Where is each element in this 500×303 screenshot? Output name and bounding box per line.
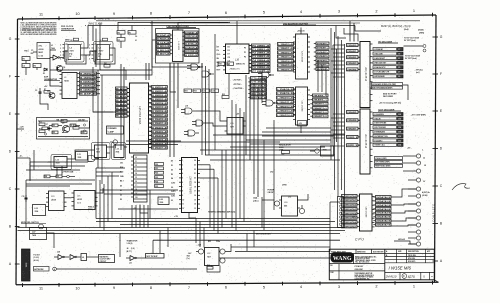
svg-text:CLAMP: CLAMP: [108, 130, 115, 133]
svg-text:B 2MRD6+B: B 2MRD6+B: [152, 111, 168, 113]
svg-text:MOT PICKUP: MOT PICKUP: [147, 256, 159, 258]
resistor R12: [39, 128, 45, 132]
svg-text:R32: R32: [155, 173, 158, 175]
wire RAM bottom stubs: [140, 205, 148, 214]
flip-flop L13: [48, 155, 72, 170]
gate L28B inverter: [70, 255, 81, 260]
svg-text:ZC/TO1→: ZC/TO1→: [233, 84, 243, 86]
svg-text:B 125KC+B: B 125KC+B: [80, 90, 96, 92]
handwritten TO CRT note: [405, 55, 421, 61]
svg-text:L20 LS244: L20 LS244: [301, 51, 303, 62]
inverter gate L1: [50, 55, 64, 60]
FORWARD CLAMP label box: [107, 126, 124, 134]
svg-text:200: 200: [398, 114, 401, 116]
svg-text:8: 8: [150, 285, 152, 290]
OUT decoder output rows: [373, 113, 403, 147]
svg-text:LS139: LS139: [51, 200, 56, 202]
svg-text:B SEL0+B: B SEL0+B: [157, 46, 170, 48]
svg-text:2: 2: [375, 284, 377, 289]
title block top strip: [329, 249, 434, 253]
svg-text:D2: D2: [120, 195, 122, 197]
svg-text:13: 13: [135, 169, 137, 171]
svg-text:C3: C3: [35, 90, 37, 92]
label 2ND ADDRESS BUFFER: [283, 22, 316, 25]
pin labels left of CTC: [217, 46, 221, 71]
gate L28 inverter: [54, 252, 69, 260]
wire clock to 2MHz bus: [84, 26, 103, 49]
small gate L14: [88, 156, 99, 162]
magnetic clutch label box: [99, 255, 115, 263]
pin labels right of buffer L21: [310, 94, 329, 118]
svg-text:Q2: Q2: [47, 91, 49, 93]
wire photo loop: [72, 150, 92, 159]
svg-text:RST•: RST•: [217, 70, 221, 72]
gate L18B and: [192, 120, 207, 126]
svg-text:23: 23: [398, 63, 400, 65]
wire left edge stubs: [18, 129, 31, 180]
wire main horizontal bus 2: [18, 230, 346, 232]
svg-text:SW1: SW1: [25, 263, 27, 269]
svg-text:→(VT. CONT (REF): →(VT. CONT (REF): [410, 115, 426, 117]
wire top right routing L2: [344, 28, 358, 42]
svg-text:B 2MRD3+B: B 2MRD3+B: [152, 99, 168, 101]
svg-text:212: 212: [398, 140, 401, 142]
svg-text:L12: L12: [96, 149, 99, 151]
IC L19 latch: [225, 118, 246, 135]
wire center long horizontals: [150, 135, 345, 147]
connector pins small top: [404, 45, 427, 53]
rows keyboard interlock: [372, 83, 403, 90]
wire decoder loop rectangle: [152, 21, 202, 67]
resistor R11: [39, 121, 45, 125]
wire amp rail bottom: [38, 136, 88, 138]
svg-text:TRANSISTOR →: TRANSISTOR →: [127, 240, 140, 243]
svg-text:27: 27: [398, 72, 400, 74]
svg-text:9: 9: [113, 285, 115, 290]
svg-text:B 2MAD3+B: B 2MAD3+B: [152, 130, 168, 133]
svg-text:ZC/TO0→: ZC/TO0→: [233, 80, 243, 82]
svg-text:7474: 7474: [70, 50, 74, 53]
svg-text:+5V→: +5V→: [407, 148, 412, 150]
wire horizontal mid bus y224: [120, 224, 330, 226]
wire buffer L21 bottom: [300, 126, 302, 133]
wire bottom drops to motor circuit: [120, 228, 254, 254]
wire mot pickup: [141, 257, 146, 259]
svg-text:2MAB2-: 2MAB2-: [347, 56, 358, 59]
svg-text:C O M P L E T E: C O M P L E T E: [433, 204, 436, 222]
svg-text:L 2MAD13+B: L 2MAD13+B: [277, 110, 294, 113]
svg-text:INT 494+B: INT 494+B: [251, 89, 267, 92]
svg-text:L22: L22: [35, 208, 38, 210]
amplifier internal parts: [44, 124, 87, 135]
svg-text:B 2MRD7+B: B 2MRD7+B: [152, 115, 168, 117]
resistor R48: [207, 264, 213, 269]
rows aux decode: [375, 157, 403, 168]
transistor Q2: [47, 91, 55, 99]
wire vertical x205 bundle: [202, 63, 209, 155]
IC L32 motor driver: [205, 248, 220, 266]
svg-text:202: 202: [398, 118, 401, 120]
svg-text:L 2MAD11+B: L 2MAD11+B: [277, 101, 294, 104]
svg-text:G: G: [440, 35, 443, 39]
pin labels left of ROM L35: [116, 87, 130, 118]
svg-text:D7: D7: [228, 54, 230, 56]
label MODE SEL SWITCH: [21, 222, 46, 224]
wire verticals x170-178: [170, 63, 178, 157]
wire motor circuit stub: [211, 266, 213, 267]
IC L41 OUT decoder: [360, 109, 373, 174]
svg-text:2MDATA2 B: 2MDATA2 B: [376, 204, 391, 207]
svg-text:IEO 494+B: IEO 494+B: [251, 92, 267, 95]
wire buffer top to bus: [300, 28, 302, 35]
svg-text:7: 7: [188, 285, 190, 290]
handwritten TO ST CLK note: [404, 37, 420, 43]
svg-text:2MDATA4 B: 2MDATA4 B: [376, 212, 391, 215]
svg-text:214: 214: [398, 144, 401, 147]
border tick marks and zone numbers bottom: [23, 281, 433, 291]
svg-text:2MDATA7 B: 2MDATA7 B: [376, 224, 391, 227]
svg-text:19: 19: [194, 182, 196, 184]
svg-text:29: 29: [398, 76, 400, 78]
svg-text:F: F: [9, 75, 11, 79]
svg-text:9: 9: [113, 11, 115, 16]
title cell divider: [329, 254, 385, 264]
svg-text:L 2MAD12+B: L 2MAD12+B: [277, 105, 294, 108]
title block outer frame: [329, 249, 434, 280]
svg-text:(7x): (7x): [187, 258, 190, 260]
svg-text:D3: D3: [171, 174, 173, 176]
wire decoder top to bus: [178, 23, 230, 31]
wire top right routing L1: [355, 26, 381, 32]
resistor R40: [282, 151, 290, 154]
svg-text:10: 10: [75, 285, 79, 290]
connector pins power group: [408, 178, 430, 246]
wire vertical x170 from decoder: [170, 63, 176, 92]
svg-text:CT1 494+B: CT1 494+B: [251, 81, 267, 84]
svg-text:MOTOR/DRIVER: MOTOR/DRIVER: [256, 234, 271, 236]
wire fb loop L2B: [95, 48, 115, 64]
svg-text:L 2MAD0+B: L 2MAD0+B: [278, 43, 294, 46]
IC L11 small box: [76, 152, 88, 161]
wire loop bottom left riser: [25, 202, 27, 228]
svg-text:2MAB12+L: 2MAB12+L: [313, 111, 329, 114]
svg-text:R31: R31: [155, 168, 158, 170]
parts cluster right of clock FFs: [117, 22, 137, 48]
flip-flop pin numbers: [60, 38, 107, 60]
notes text block: [21, 21, 58, 36]
gate L17A nand: [258, 70, 274, 79]
svg-text:555: 555: [284, 206, 287, 208]
svg-text:L1 04: L1 04: [39, 54, 43, 57]
svg-text:B RDCLK+B: B RDCLK+B: [185, 36, 198, 38]
pin labels right of CPU buffer: [373, 196, 391, 227]
pin labels left of decoder L40 upper: [347, 44, 361, 72]
svg-text:P2 2MB2+B: P2 2MB2+B: [252, 53, 270, 55]
capacitor C3: [35, 88, 42, 96]
pin labels right of buffer L20: [314, 42, 329, 71]
decoder enclosure box: [156, 29, 200, 64]
handwritten assembly number: [354, 266, 364, 271]
svg-text:L16: L16: [235, 59, 240, 62]
ARTWORK label box: [34, 267, 50, 272]
pin labels right of CTC: [249, 44, 270, 73]
svg-text:17: 17: [135, 185, 137, 187]
IC L25 selector: [72, 191, 98, 210]
svg-text:2MAB8+ L: 2MAB8+ L: [313, 94, 329, 97]
svg-text:2MWR- B: 2MWR- B: [347, 137, 358, 139]
svg-text:D3: D3: [228, 50, 230, 52]
wire horizontal y150-155 crossers: [200, 150, 340, 160]
svg-text:R22: R22: [222, 94, 225, 96]
wire main horizontal bus 1: [18, 227, 346, 229]
svg-text:R1: R1: [23, 59, 25, 61]
svg-text:B SYNC+B: B SYNC+B: [185, 44, 198, 46]
svg-text:6: 6: [225, 10, 227, 15]
wire artwork long horizontal: [56, 268, 197, 270]
wire long horizontal y240: [153, 240, 340, 253]
wire horizontal y140 band: [110, 141, 181, 147]
svg-text:B ASF+B: B ASF+B: [80, 93, 97, 96]
svg-text:L44 LS245: L44 LS245: [365, 207, 367, 218]
wire amp input: [40, 96, 48, 110]
wire clock chain: [84, 51, 94, 55]
svg-text:P0 2MB0+B: P0 2MB0+B: [252, 45, 270, 47]
svg-text:18: 18: [194, 186, 196, 188]
svg-text:1 SEL/CMD: 1 SEL/CMD: [374, 53, 384, 55]
svg-text:P1 2MB1+B: P1 2MB1+B: [252, 49, 270, 51]
wire mid right horizontals: [262, 128, 334, 136]
wire motor loop below: [207, 266, 220, 273]
wire big loop around decoder: [95, 29, 97, 68]
svg-text:L 2MAD4+B: L 2MAD4+B: [278, 60, 294, 63]
svg-text:P4 2MB4+B: P4 2MB4+B: [252, 59, 270, 62]
wire top rail second: [150, 22, 360, 24]
wire feeders to right decoder: [333, 45, 345, 146]
labels left edge mid: [20, 127, 25, 158]
svg-text:P1: P1: [244, 52, 246, 54]
svg-text:B 2MAD2+B: B 2MAD2+B: [152, 126, 168, 129]
IC L10 data separator: [173, 30, 184, 62]
svg-text:CLK0: CLK0: [171, 182, 175, 184]
small box L22: [33, 205, 46, 216]
wire left risers long: [98, 70, 102, 184]
svg-text:L40 LS138 x2: L40 LS138 x2: [364, 67, 366, 82]
wire vertical x215: [214, 34, 216, 150]
svg-text:B 2MAD4+B: B 2MAD4+B: [152, 134, 168, 137]
svg-text:9: 9: [110, 44, 111, 46]
svg-text:J2(3)→: J2(3)→: [253, 198, 259, 200]
wire motor out right: [225, 244, 231, 252]
wire gate chain: [207, 123, 225, 126]
gate L17B nand: [262, 100, 278, 106]
svg-text:(4-5-6): (4-5-6): [34, 259, 40, 262]
svg-text:B 1MHZ+B: B 1MHZ+B: [80, 78, 97, 80]
WANG logo: [331, 253, 354, 262]
svg-text:6: 6: [60, 58, 61, 60]
svg-text:L18: L18: [185, 106, 188, 108]
svg-text:P.U.S.H: P.U.S.H: [34, 255, 41, 257]
resistor R22 below CTC: [222, 94, 229, 99]
svg-text:CIRCUIT: CIRCUIT: [100, 261, 107, 263]
svg-text:2MAB6+: 2MAB6+: [317, 68, 329, 71]
regulator Q6 circuit: [310, 146, 334, 156]
wire ASF outputs right: [97, 74, 101, 94]
svg-text:D1: D1: [43, 73, 45, 75]
svg-text:L 2MAD8+B: L 2MAD8+B: [277, 88, 294, 91]
title block left-right divider: [384, 249, 386, 280]
wire decoder feed left: [100, 40, 156, 75]
wire right top drop pair: [350, 21, 354, 42]
svg-text:J4 → (1,9): J4 → (1,9): [127, 247, 135, 250]
svg-text:2MAB9+ L: 2MAB9+ L: [313, 99, 329, 102]
capacitor C12 under L21: [298, 121, 307, 127]
svg-text:208: 208: [398, 132, 401, 134]
svg-text:C2: C2: [23, 66, 25, 68]
pen squiggle mark: [452, 184, 470, 190]
svg-text:L 2MAD3+B: L 2MAD3+B: [278, 56, 294, 59]
svg-text:5: 5: [182, 178, 183, 180]
svg-text:L10 9602: L10 9602: [177, 42, 179, 51]
parts box pair near 2MHZ-CTC: [218, 62, 246, 66]
svg-text:C30a: C30a: [216, 241, 220, 243]
wire top right routing L3: [336, 26, 346, 39]
read amplifier enclosure: [37, 118, 90, 140]
svg-text:CS1: CS1: [120, 162, 123, 164]
svg-text:R2: R2: [34, 66, 36, 68]
svg-text:G0: G0: [171, 187, 173, 189]
svg-text:3: 3: [338, 9, 340, 14]
wire mid-left verticals: [57, 166, 62, 175]
svg-text:11: 11: [39, 12, 43, 17]
svg-text:2MDATA3 B: 2MDATA3 B: [376, 208, 391, 211]
svg-text:C7: C7: [46, 124, 48, 126]
svg-text:11: 11: [39, 286, 43, 291]
wire center verticals x264-274: [264, 120, 274, 230]
svg-text:5: 5: [263, 9, 265, 14]
connector pins J5 group: [403, 154, 427, 173]
drawn approved cell: [329, 264, 385, 280]
svg-text:J1: J1: [423, 158, 425, 160]
handwritten 5V 5x note: [414, 70, 423, 75]
wire mid horizontal y112: [93, 111, 130, 113]
labels below CTC: [233, 80, 245, 91]
wire center risers x262-270: [262, 75, 266, 103]
svg-text:Z80A-CTC: Z80A-CTC: [229, 68, 241, 71]
wire horizontal mid bus y221: [96, 221, 335, 223]
label POWER ON RESET: [268, 190, 276, 195]
MOT PICKUP label box: [146, 254, 165, 259]
wire clutch feed: [87, 256, 99, 258]
svg-text:7474: 7474: [116, 151, 120, 154]
svg-text:16: 16: [194, 195, 196, 197]
handwritten +5V -12V labels: [407, 148, 424, 152]
wire bus 2MHz horizontal: [103, 25, 355, 27]
handwritten BUSY notes top right: [381, 25, 425, 35]
wire nested routing left stack: [96, 168, 125, 231]
wire center-low horizontals: [100, 190, 178, 219]
IC L20 address buffer: [296, 34, 308, 79]
svg-text:2MAB5-: 2MAB5-: [347, 111, 358, 114]
wire fb loop L2A: [66, 51, 86, 64]
svg-text:2MDATA1 B: 2MDATA1 B: [376, 200, 391, 203]
svg-text:B 2MAD6+B: B 2MAD6+B: [152, 143, 168, 146]
svg-text:7406: 7406: [35, 210, 39, 213]
svg-text:0 CLEAR/RS: 0 CLEAR/RS: [374, 113, 385, 116]
wire right block feeders: [331, 49, 344, 130]
svg-text:206: 206: [398, 127, 401, 129]
label REGULATOR: [279, 144, 291, 152]
svg-text:19: 19: [398, 53, 400, 55]
svg-text:L 2MAD14+B: L 2MAD14+B: [277, 114, 294, 117]
capacitor C7: [46, 124, 50, 131]
wire small parts risers: [26, 61, 37, 76]
svg-text:5: 5: [81, 44, 82, 46]
svg-text:2: 2: [89, 44, 90, 46]
small box L26: [158, 197, 169, 205]
svg-text:2MAB5+: 2MAB5+: [317, 64, 329, 67]
svg-text:P3 2MB3+B: P3 2MB3+B: [252, 56, 270, 58]
IC L21 address buffer: [296, 87, 308, 125]
svg-text:LS153: LS153: [77, 199, 82, 201]
svg-text:6: 6: [225, 285, 227, 290]
wire bottom center drops: [196, 218, 204, 248]
wire left vertical bundle x121: [121, 64, 124, 150]
oscillator XTL1 4MHz: [31, 43, 57, 59]
pin labels left of L24: [171, 161, 175, 202]
pin labels left of decoder L10: [157, 34, 173, 56]
svg-text:B 2MAD1+B: B 2MAD1+B: [152, 122, 168, 125]
wire title block to border stub: [434, 280, 438, 283]
svg-text:B WDAT+B: B WDAT+B: [157, 34, 170, 37]
svg-text:15: 15: [194, 199, 196, 201]
wire osc output: [63, 51, 66, 58]
wire right mid horizontals y140-146: [246, 140, 331, 144]
svg-text:L35 2716 ROM: L35 2716 ROM: [138, 106, 142, 124]
label FDD DATA DECODER: [167, 25, 197, 28]
svg-text:B 2MRD2+B: B 2MRD2+B: [152, 95, 168, 97]
svg-text:L41 LS138 x2: L41 LS138 x2: [364, 134, 366, 149]
wire left region horizontals: [26, 150, 88, 186]
svg-text:7474: 7474: [99, 50, 103, 53]
capacitor C15: [22, 195, 28, 202]
svg-text:R30: R30: [155, 164, 158, 166]
svg-text:C8: C8: [70, 125, 72, 127]
gate L5 nand: [202, 71, 214, 77]
svg-text:(B P 7): (B P 7): [127, 251, 133, 253]
svg-text:5: 5: [60, 55, 61, 57]
wire CTC bottom stub: [228, 74, 230, 96]
wire motor out y258: [219, 257, 332, 259]
svg-text:1 SEL/HI: 1 SEL/HI: [374, 118, 381, 120]
wire mid horizontal y70: [50, 69, 152, 71]
svg-text:CLK1: CLK1: [171, 196, 175, 198]
IN decoder output rows: [373, 48, 403, 79]
svg-text:2MAB11+L: 2MAB11+L: [313, 107, 329, 110]
flip-flop L2B divider: [94, 42, 114, 63]
svg-text:6 CLEAR 2: 6 CLEAR 2: [374, 139, 383, 142]
wire horizontal mid bus y218: [96, 218, 330, 220]
pin labels left of decoder lower: [347, 111, 361, 148]
svg-text:B 2MAD7+B: B 2MAD7+B: [152, 147, 168, 150]
transistor Q7: [274, 201, 279, 206]
wire verticals x246-258: [246, 75, 258, 197]
svg-text:D1•: D1•: [217, 50, 220, 52]
svg-text:15: 15: [135, 177, 137, 179]
svg-text:12: 12: [182, 208, 184, 210]
gate L31 driver: [126, 256, 141, 265]
svg-text:5: 5: [263, 284, 265, 289]
svg-text:4 TERMINATE: 4 TERMINATE: [374, 131, 386, 134]
